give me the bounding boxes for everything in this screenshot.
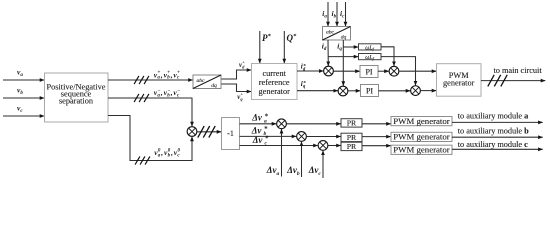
svg-text:separation: separation (59, 97, 94, 106)
svg-text:ωLf: ωLf (365, 45, 374, 51)
svg-text:PR: PR (347, 142, 357, 151)
wire ia input (327, 2, 329, 26)
svg-text:PI: PI (366, 87, 373, 96)
svg-text:vc: vc (17, 104, 23, 115)
svg-text:PI: PI (365, 68, 372, 77)
block PWM generator a (391, 116, 452, 126)
svg-text:Q*: Q* (287, 33, 298, 43)
wire vb input (3, 97, 44, 99)
wire to auxiliary module c (452, 148, 543, 150)
svg-text:PR: PR (347, 119, 357, 128)
svg-text:iq*: iq* (301, 80, 306, 90)
svg-text:va: va (17, 68, 23, 79)
wire node A to PI1 (334, 70, 360, 72)
block wLf2 (359, 54, 382, 62)
block positive/negative sequence separation (45, 73, 109, 122)
svg-text:Δvb: Δvb (286, 165, 300, 177)
wire dvb feedback up (301, 142, 303, 177)
svg-text:Δvc*: Δvc* (252, 135, 269, 147)
svg-text:vq+: vq+ (237, 92, 243, 102)
wire to main circuit (481, 75, 545, 87)
wire va input (3, 79, 44, 81)
wire node B to PI2 (348, 90, 360, 92)
wire C3 to PR c (328, 145, 341, 147)
block abc/dq current transform (323, 27, 351, 41)
wire id* to node A (297, 70, 324, 72)
svg-text:va0,vb0,vc0: va0,vb0,vc0 (154, 148, 180, 158)
block PWM generator main (437, 64, 482, 96)
svg-text:to auxiliary module c: to auxiliary module c (458, 140, 528, 149)
node A summing junction (324, 66, 334, 76)
block PWM generator c (391, 145, 452, 155)
svg-text:PWM generator: PWM generator (393, 116, 449, 126)
svg-text:Δvc: Δvc (308, 165, 322, 177)
wire wLf2 to node S2 (381, 57, 416, 86)
wire C1 to PR a (287, 123, 341, 125)
block current reference generator (252, 64, 298, 100)
svg-text:id: id (322, 41, 327, 52)
svg-text:Δva*: Δva* (251, 113, 268, 125)
svg-text:-1: -1 (227, 129, 234, 138)
wire PR c to PWM c (362, 145, 391, 147)
svg-text:dq: dq (211, 83, 217, 89)
svg-text:ib: ib (332, 9, 337, 19)
svg-text:abc: abc (326, 30, 335, 36)
wire C2 to PR b (307, 136, 341, 138)
node J0 summing junction (187, 127, 197, 137)
wire id down to node A (327, 40, 329, 66)
wire node S1 to PWM generator (399, 70, 436, 72)
wire PR b to PWM b (362, 136, 391, 138)
wire PI2 to node S2 (379, 90, 411, 92)
svg-text:current: current (262, 69, 286, 78)
block PI1 (360, 66, 378, 78)
block PI2 (361, 85, 379, 97)
svg-text:ωLf: ωLf (365, 55, 374, 61)
wire P* input (259, 31, 261, 63)
wire vq+ into current reference generator (221, 84, 251, 92)
wire vc input (3, 115, 44, 117)
block wLf1 (359, 44, 382, 52)
wire wLf1 to node S1 (381, 47, 394, 66)
svg-text:ic: ic (340, 9, 345, 19)
node B summing junction (338, 86, 348, 96)
svg-text:to auxiliary module b: to auxiliary module b (458, 127, 529, 136)
wire iq* to node B (297, 90, 338, 92)
wire vd+ into current reference generator (221, 70, 251, 79)
wire v- three-phase down to node J0 (108, 94, 192, 126)
wire id branch to wLf2 (328, 56, 358, 58)
node C2 summing junction (297, 132, 307, 142)
wire PI1 to node S1 (378, 70, 389, 72)
node S2 summing junction (411, 86, 421, 96)
wire dva feedback up (281, 129, 283, 177)
node C1 summing junction (277, 119, 287, 129)
wire to auxiliary module b (452, 136, 543, 138)
wire ic input (345, 2, 347, 26)
svg-text:ia: ia (322, 9, 327, 19)
svg-text:P*: P* (262, 33, 272, 43)
wire Q* input (283, 31, 285, 63)
svg-text:va+,vb+,vc+: va+,vb+,vc+ (154, 70, 180, 80)
svg-text:iq: iq (337, 41, 342, 52)
svg-text:vb: vb (17, 86, 23, 97)
svg-text:abc: abc (196, 78, 205, 84)
wire to auxiliary module a (452, 121, 543, 123)
svg-text:generator: generator (443, 78, 475, 87)
svg-text:dq: dq (341, 35, 347, 41)
svg-text:va−,vb−,vc−: va−,vb−,vc− (154, 88, 180, 98)
wire ib input (336, 2, 338, 26)
svg-text:generator: generator (259, 87, 291, 96)
wire dvb* row b (240, 135, 297, 137)
wire J0 to -1 block (197, 126, 221, 138)
node S1 summing junction (389, 66, 399, 76)
wire dvc feedback up (322, 151, 324, 178)
svg-text:reference: reference (259, 78, 290, 87)
wire iq branch to wLf1 (343, 46, 358, 48)
block PR b (341, 133, 362, 142)
block PR c (341, 142, 362, 151)
block abc/dq voltage transform (193, 75, 221, 89)
svg-text:to auxiliary module a: to auxiliary module a (458, 112, 529, 121)
node C3 summing junction (318, 141, 328, 151)
wire node S2 to PWM generator (421, 90, 437, 92)
wire PR a to PWM a (362, 123, 391, 125)
svg-text:Δva: Δva (266, 165, 280, 177)
svg-text:to main circuit: to main circuit (494, 66, 543, 75)
wire dvc* row c (240, 145, 318, 147)
svg-text:vd+: vd+ (239, 59, 245, 69)
svg-text:PR: PR (347, 133, 357, 142)
block PWM generator b (391, 132, 452, 142)
block -1 gain (222, 118, 240, 150)
wire dva* row a (240, 123, 277, 125)
wire iq down to node B (342, 40, 344, 86)
wire v+ three-phase to abc/dq (108, 76, 193, 84)
block PR a (341, 119, 362, 128)
svg-text:PWM generator: PWM generator (393, 132, 449, 142)
svg-text:PWM generator: PWM generator (393, 145, 449, 155)
wire v0 three-phase around to node J0 (108, 116, 192, 165)
